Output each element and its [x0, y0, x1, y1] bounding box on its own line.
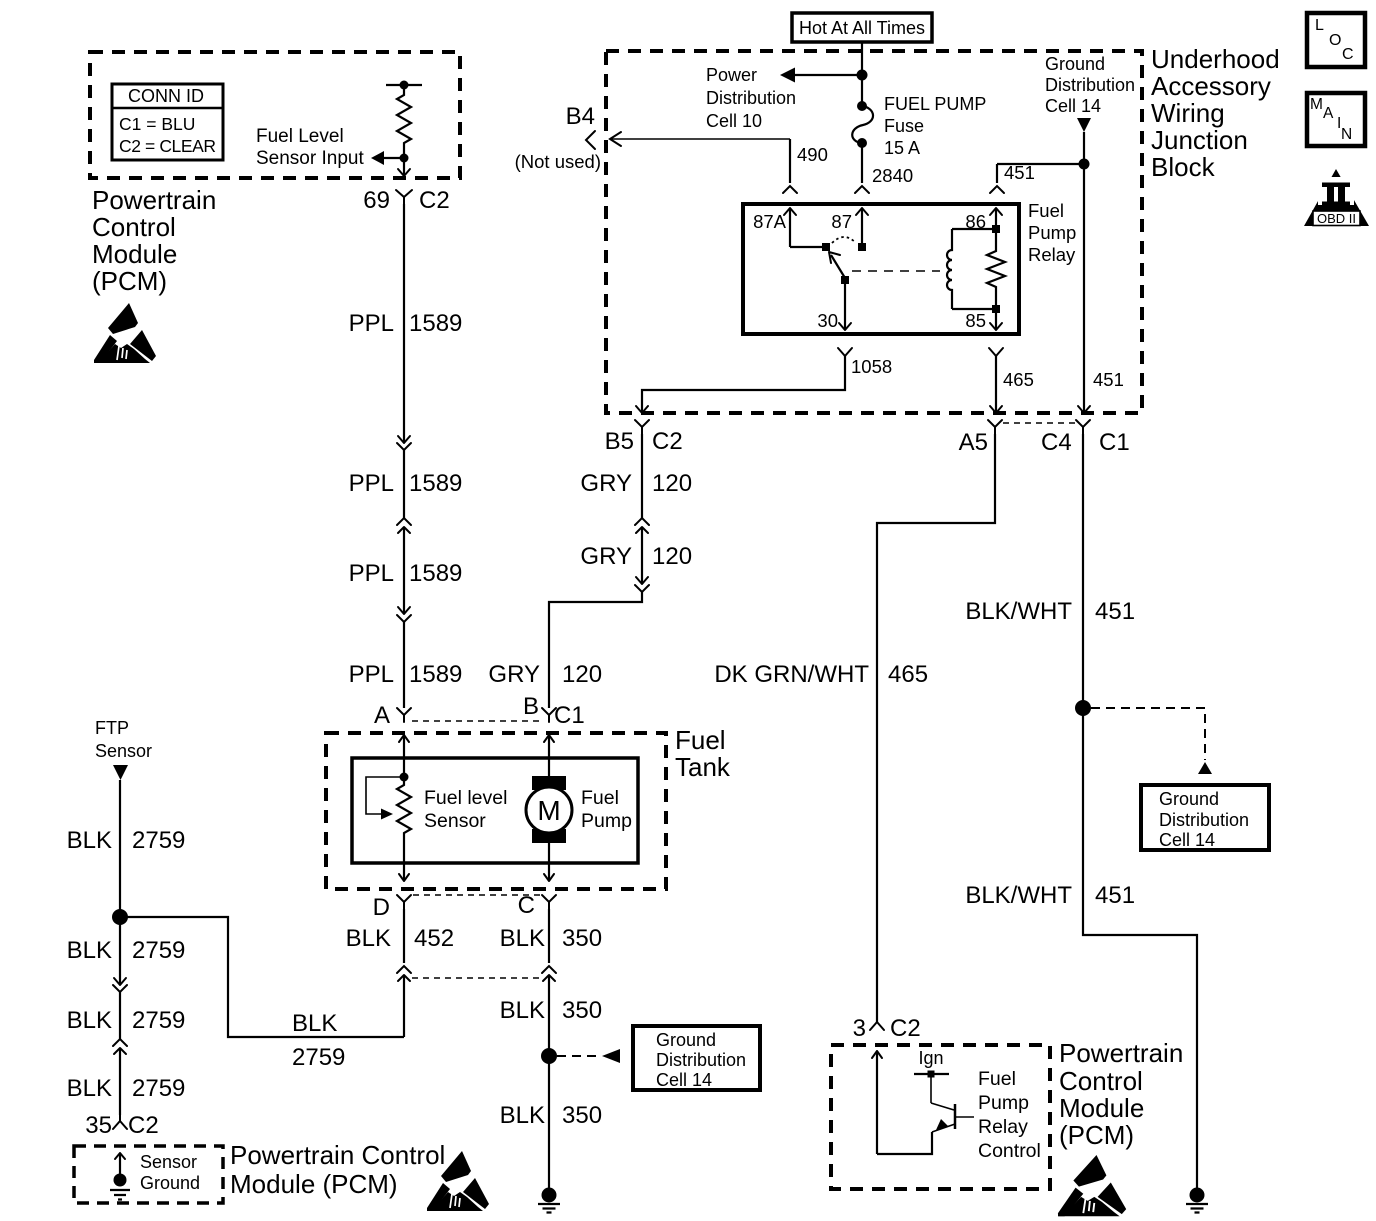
dashed link A-B	[412, 720, 541, 722]
svg-text:Control: Control	[92, 212, 176, 242]
wire from Hot At All Times to fuse	[861, 42, 863, 104]
svg-text:C1 = BLU: C1 = BLU	[119, 114, 195, 134]
ESD symbol bottom middle	[427, 1151, 489, 1211]
sensor ground arrow	[115, 1153, 125, 1180]
svg-text:Fuel level: Fuel level	[424, 787, 507, 809]
connector 35 C2	[85, 1112, 158, 1139]
svg-text:Power: Power	[706, 65, 757, 85]
connector 69 C2	[363, 187, 449, 214]
svg-text:Accessory: Accessory	[1151, 71, 1271, 101]
sensor input arrow	[371, 151, 400, 165]
relay coil top wire	[952, 228, 996, 230]
svg-text:Distribution: Distribution	[1045, 75, 1135, 95]
svg-text:Control: Control	[978, 1140, 1041, 1162]
Fuel Pump Relay label	[1028, 200, 1076, 265]
svg-text:GRY: GRY	[580, 543, 632, 570]
connector 3 C2	[853, 1015, 921, 1042]
svg-text:FUEL PUMP: FUEL PUMP	[884, 94, 986, 114]
svg-text:350: 350	[562, 997, 602, 1024]
fuse FUEL PUMP 15 A	[852, 94, 986, 158]
ground symbol (bottom middle)	[538, 1188, 560, 1213]
svg-text:Ground: Ground	[140, 1173, 200, 1193]
svg-text:Sensor: Sensor	[95, 741, 152, 761]
svg-text:BLK: BLK	[67, 937, 112, 964]
svg-text:2759: 2759	[292, 1044, 345, 1071]
svg-text:Control: Control	[1059, 1066, 1143, 1096]
svg-text:B5: B5	[605, 428, 634, 455]
svg-text:(PCM): (PCM)	[92, 266, 167, 296]
svg-text:Fuel: Fuel	[675, 725, 726, 755]
power distribution arrow wire	[780, 68, 862, 83]
splice chevron up (C line)	[542, 966, 556, 973]
svg-text:451: 451	[1093, 369, 1124, 390]
dashed reference to ground distribution (middle)	[557, 1049, 620, 1063]
receptacle below pin 85	[989, 348, 1003, 356]
svg-text:N: N	[1341, 126, 1352, 143]
svg-text:D: D	[373, 894, 390, 921]
wire BLK/WHT 451 segment 1	[965, 434, 1135, 708]
svg-text:30: 30	[817, 310, 838, 331]
relay coil bottom wire	[952, 308, 996, 310]
fuel pump motor M	[526, 776, 572, 843]
svg-text:2759: 2759	[132, 827, 185, 854]
svg-text:Powertrain: Powertrain	[1059, 1038, 1183, 1068]
wire BLK 452 from D	[346, 909, 454, 963]
svg-text:120: 120	[652, 543, 692, 570]
Ground Distribution Cell 14 label (top)	[1045, 54, 1135, 116]
wire 1058	[636, 356, 892, 413]
svg-text:L: L	[1315, 17, 1324, 34]
svg-text:GRY: GRY	[488, 661, 540, 688]
svg-text:1058: 1058	[851, 356, 892, 377]
PCM module dashed box (top-left)	[90, 52, 460, 178]
wire motor to C with arrowhead	[544, 843, 554, 881]
svg-text:BLK: BLK	[67, 827, 112, 854]
wire PPL 1589 segment 1	[349, 204, 463, 443]
svg-text:A: A	[1323, 105, 1334, 122]
Powertrain Control Module (PCM) label top-left	[92, 185, 216, 296]
FTP Sensor label	[95, 718, 152, 761]
wire PPL 1589 segment 2	[349, 450, 463, 525]
svg-text:Relay: Relay	[1028, 244, 1076, 265]
wire BLK 2759 horizontal run	[120, 917, 404, 1071]
svg-text:Ground: Ground	[1159, 789, 1219, 809]
svg-text:C: C	[518, 892, 535, 919]
wire B into tank with arrowhead	[544, 735, 554, 779]
svg-text:451: 451	[1004, 162, 1035, 183]
svg-text:Ign: Ign	[918, 1048, 943, 1068]
wire GRY 120 segment 2	[580, 527, 692, 584]
svg-text:Powertrain: Powertrain	[92, 185, 216, 215]
wire GRY 120 segment 1	[580, 434, 692, 525]
wire BLK 350 from C	[500, 909, 602, 963]
svg-text:451: 451	[1095, 882, 1135, 909]
svg-text:451: 451	[1095, 598, 1135, 625]
receptacle below pin 30	[838, 348, 852, 356]
svg-text:Sensor: Sensor	[140, 1152, 197, 1172]
svg-text:BLK: BLK	[500, 1102, 545, 1129]
dashed link D-C inline connector	[412, 977, 541, 979]
svg-text:A5: A5	[959, 429, 988, 456]
svg-text:3: 3	[853, 1015, 866, 1042]
wire BLK 2759 segment 4	[67, 1048, 186, 1115]
svg-text:C2: C2	[652, 428, 683, 455]
relay pin 86	[965, 208, 1002, 232]
svg-text:87: 87	[831, 211, 852, 232]
svg-text:Pump: Pump	[581, 810, 632, 832]
sensor ground symbol	[110, 1174, 130, 1200]
svg-text:Distribution: Distribution	[1159, 810, 1249, 830]
svg-text:A: A	[374, 702, 390, 729]
svg-text:OBD II: OBD II	[1317, 211, 1356, 226]
Fuel Pump Relay Control label	[978, 1068, 1041, 1162]
svg-text:2759: 2759	[132, 937, 185, 964]
svg-text:Pump: Pump	[978, 1092, 1029, 1114]
svg-text:Cell 14: Cell 14	[1159, 830, 1215, 850]
Fuel Level Sensor Input label	[256, 126, 364, 169]
B4 open chevron	[586, 131, 595, 149]
svg-text:BLK: BLK	[500, 997, 545, 1024]
connector B5 C2	[605, 420, 683, 455]
connector A (fuel tank)	[374, 702, 411, 729]
svg-text:Cell 10: Cell 10	[706, 111, 762, 131]
svg-text:452: 452	[414, 925, 454, 952]
svg-text:CONN ID: CONN ID	[128, 86, 204, 106]
svg-text:Module: Module	[1059, 1093, 1144, 1123]
ground symbol (bottom right)	[1186, 1188, 1208, 1213]
node power distribution tap	[857, 70, 868, 81]
relay switch 87 contact	[858, 243, 866, 251]
svg-text:(PCM): (PCM)	[1059, 1120, 1134, 1150]
Fuel Tank label	[675, 725, 731, 782]
node 451 ground tap	[1075, 700, 1091, 716]
svg-text:PPL: PPL	[349, 470, 394, 497]
dashed reference to ground distribution (right)	[1091, 708, 1212, 774]
svg-text:C2: C2	[128, 1112, 159, 1139]
svg-text:Block: Block	[1151, 152, 1216, 182]
fuel pump relay box	[743, 204, 1019, 334]
splice chevron (down)	[635, 585, 649, 592]
svg-text:69: 69	[363, 187, 390, 214]
svg-text:2759: 2759	[132, 1075, 185, 1102]
Underhood Accessory Wiring Junction Block dashed box	[606, 51, 1142, 413]
svg-text:Distribution: Distribution	[656, 1050, 746, 1070]
wire BLK 2759 segment 2	[67, 917, 186, 985]
connector chevron (86)	[990, 186, 1004, 193]
wire BLK 350 segment 3	[500, 1056, 602, 1188]
svg-text:C2: C2	[419, 187, 450, 214]
wire BLK 2759 from D splice down to corner	[398, 975, 410, 1037]
fuel level sensor node	[400, 773, 409, 782]
svg-text:Fuel: Fuel	[978, 1068, 1016, 1090]
svg-text:O: O	[1329, 32, 1341, 49]
svg-text:BLK: BLK	[500, 925, 545, 952]
wire PPL 1589 segment 4	[349, 622, 463, 708]
svg-text:1589: 1589	[409, 661, 462, 688]
MAIN icon box	[1307, 93, 1365, 146]
svg-text:Sensor: Sensor	[424, 810, 486, 832]
CONN ID table	[112, 84, 223, 160]
svg-text:C2: C2	[890, 1015, 921, 1042]
svg-text:Distribution: Distribution	[706, 88, 796, 108]
svg-text:Ground: Ground	[1045, 54, 1105, 74]
fuel tank dashed box	[326, 733, 666, 889]
Powertrain Control Module (PCM) label bottom-left	[230, 1140, 445, 1199]
Ground Distribution Cell 14 box (middle)	[633, 1026, 760, 1090]
splice chevron (down)	[397, 615, 411, 622]
svg-text:PPL: PPL	[349, 310, 394, 337]
fuel tank inner solid box	[352, 758, 638, 863]
svg-text:BLK: BLK	[292, 1010, 337, 1037]
fuel level sensor resistor	[397, 777, 411, 881]
dashed link D-C	[413, 894, 540, 896]
svg-text:C2 = CLEAR: C2 = CLEAR	[119, 136, 216, 156]
svg-text:C4: C4	[1041, 429, 1072, 456]
svg-text:M: M	[537, 795, 560, 826]
dashed link A5-C4	[1003, 422, 1075, 424]
svg-text:2759: 2759	[132, 1007, 185, 1034]
svg-text:BLK/WHT: BLK/WHT	[965, 598, 1072, 625]
svg-text:35: 35	[85, 1112, 112, 1139]
splice chevron up (D line)	[397, 966, 411, 973]
svg-text:(Not used): (Not used)	[515, 151, 601, 172]
relay coil	[947, 229, 952, 309]
relay pin 87A	[753, 208, 796, 247]
svg-text:B4: B4	[566, 103, 595, 130]
wire 451 down inside junction block	[1078, 164, 1124, 413]
OBD II icon	[1304, 169, 1369, 226]
relay switch 87A contact	[790, 246, 823, 248]
svg-text:Fuel: Fuel	[1028, 200, 1064, 221]
svg-text:1589: 1589	[409, 310, 462, 337]
wire BLK/WHT 451 segment 2 to ground	[965, 708, 1197, 1188]
svg-text:C: C	[1342, 46, 1354, 63]
svg-text:2840: 2840	[872, 165, 913, 186]
wire A into tank with arrowhead	[399, 735, 409, 777]
svg-text:87A: 87A	[753, 211, 787, 232]
svg-text:DK GRN/WHT: DK GRN/WHT	[714, 661, 869, 688]
svg-text:Fuel: Fuel	[581, 787, 619, 809]
PCM dashed box (bottom-right)	[831, 1045, 1050, 1189]
svg-text:Sensor Input: Sensor Input	[256, 148, 364, 169]
wire 465 inside junction block	[990, 356, 1034, 413]
Fuel Pump label	[581, 787, 632, 832]
connector C4 C1	[1041, 420, 1130, 456]
dotted arc between contacts	[832, 237, 856, 243]
wire PPL 1589 segment 3 (up arrow into splice)	[349, 527, 463, 614]
fuel level sensor input resistor (inside PCM)	[386, 81, 422, 163]
svg-text:1589: 1589	[409, 560, 462, 587]
PCM dashed box (bottom-left)	[74, 1146, 223, 1203]
connector chevron (87A)	[783, 186, 797, 193]
wire BLK 350 segment 2	[500, 975, 602, 1056]
relay mechanical dashed link	[852, 270, 940, 272]
Fuel level Sensor label	[424, 787, 507, 832]
svg-text:15 A: 15 A	[884, 138, 920, 158]
svg-text:PPL: PPL	[349, 560, 394, 587]
svg-text:350: 350	[562, 1102, 602, 1129]
fuel level sensor wiper	[366, 777, 404, 820]
svg-text:Fuse: Fuse	[884, 116, 924, 136]
transistor Q (fuel pump relay driver)	[928, 1071, 975, 1133]
svg-text:Cell 14: Cell 14	[656, 1070, 712, 1090]
Underhood Accessory Wiring Junction Block label	[1151, 44, 1280, 182]
svg-text:Hot At All Times: Hot At All Times	[799, 18, 925, 38]
svg-text:GRY: GRY	[580, 470, 632, 497]
svg-text:FTP: FTP	[95, 718, 129, 738]
svg-text:120: 120	[562, 661, 602, 688]
svg-text:85: 85	[965, 310, 986, 331]
relay pin 30	[817, 284, 851, 331]
node BLK 350 ground tap	[541, 1048, 557, 1064]
Power Distribution Cell 10 label	[706, 65, 796, 131]
Ground Distribution Cell 14 box (right)	[1141, 785, 1269, 850]
relay switch blade	[829, 252, 849, 284]
svg-text:Underhood: Underhood	[1151, 44, 1280, 74]
Sensor Ground label	[140, 1152, 200, 1193]
svg-text:Junction: Junction	[1151, 125, 1248, 155]
relay pin 87	[831, 208, 868, 243]
svg-text:1589: 1589	[409, 470, 462, 497]
connector A5	[959, 420, 1002, 456]
svg-text:Relay: Relay	[978, 1116, 1028, 1138]
svg-text:Ground: Ground	[656, 1030, 716, 1050]
splice chevron (down)	[397, 443, 411, 450]
svg-text:C1: C1	[1099, 429, 1130, 456]
ground distribution triangle	[1077, 118, 1091, 132]
wire DK GRN/WHT 465	[714, 434, 995, 1022]
ESD symbol top-left	[94, 303, 156, 363]
svg-text:Module: Module	[92, 239, 177, 269]
svg-text:Wiring: Wiring	[1151, 98, 1225, 128]
Ign feed line	[914, 1073, 949, 1075]
relay resistor	[987, 229, 1005, 309]
wire 490 to B4 (not used)	[610, 132, 828, 183]
svg-text:465: 465	[888, 661, 928, 688]
wire GRY 120 segment 3 to fuel tank B	[488, 592, 642, 708]
wire BLK 2759 segment 3	[67, 992, 186, 1046]
fuse-to-relay connector chevron (87)	[855, 186, 869, 193]
svg-text:490: 490	[797, 144, 828, 165]
svg-text:120: 120	[652, 470, 692, 497]
relay pin 85	[965, 310, 1002, 331]
FTP sensor triangle	[113, 765, 128, 780]
LOC icon box	[1307, 13, 1365, 67]
svg-text:Tank: Tank	[675, 752, 731, 782]
wire sensor to D with arrowhead	[399, 874, 409, 881]
svg-text:Module (PCM): Module (PCM)	[230, 1169, 398, 1199]
emitter return wire with arrowhead	[872, 1051, 932, 1154]
node FTP splice	[112, 909, 128, 925]
wire 2840	[862, 143, 913, 186]
svg-text:Fuel Level: Fuel Level	[256, 126, 344, 147]
Powertrain Control Module (PCM) label bottom-right	[1059, 1038, 1183, 1150]
svg-text:Pump: Pump	[1028, 222, 1076, 243]
splice chevron (down)	[113, 985, 127, 992]
svg-text:BLK: BLK	[67, 1007, 112, 1034]
Hot At All Times box	[792, 13, 932, 42]
connector D (fuel tank bottom)	[373, 894, 411, 921]
wire BLK 2759 segment 1	[67, 780, 186, 917]
svg-text:BLK/WHT: BLK/WHT	[965, 882, 1072, 909]
svg-text:BLK: BLK	[346, 925, 391, 952]
svg-text:465: 465	[1003, 369, 1034, 390]
svg-text:M: M	[1310, 96, 1323, 113]
svg-text:86: 86	[965, 211, 986, 232]
connector C (fuel tank bottom)	[518, 892, 556, 919]
wire from resistor to pin 69 with arrowhead	[398, 158, 410, 176]
svg-text:Powertrain Control: Powertrain Control	[230, 1140, 445, 1170]
svg-text:PPL: PPL	[349, 661, 394, 688]
svg-text:BLK: BLK	[67, 1075, 112, 1102]
svg-text:Cell 14: Cell 14	[1045, 96, 1101, 116]
ESD symbol bottom right	[1058, 1155, 1126, 1216]
connector B C1 (fuel tank)	[523, 693, 585, 729]
svg-text:B: B	[523, 693, 539, 720]
svg-text:C1: C1	[554, 702, 585, 729]
wire 451 from ground distribution	[997, 132, 1090, 183]
svg-text:350: 350	[562, 925, 602, 952]
